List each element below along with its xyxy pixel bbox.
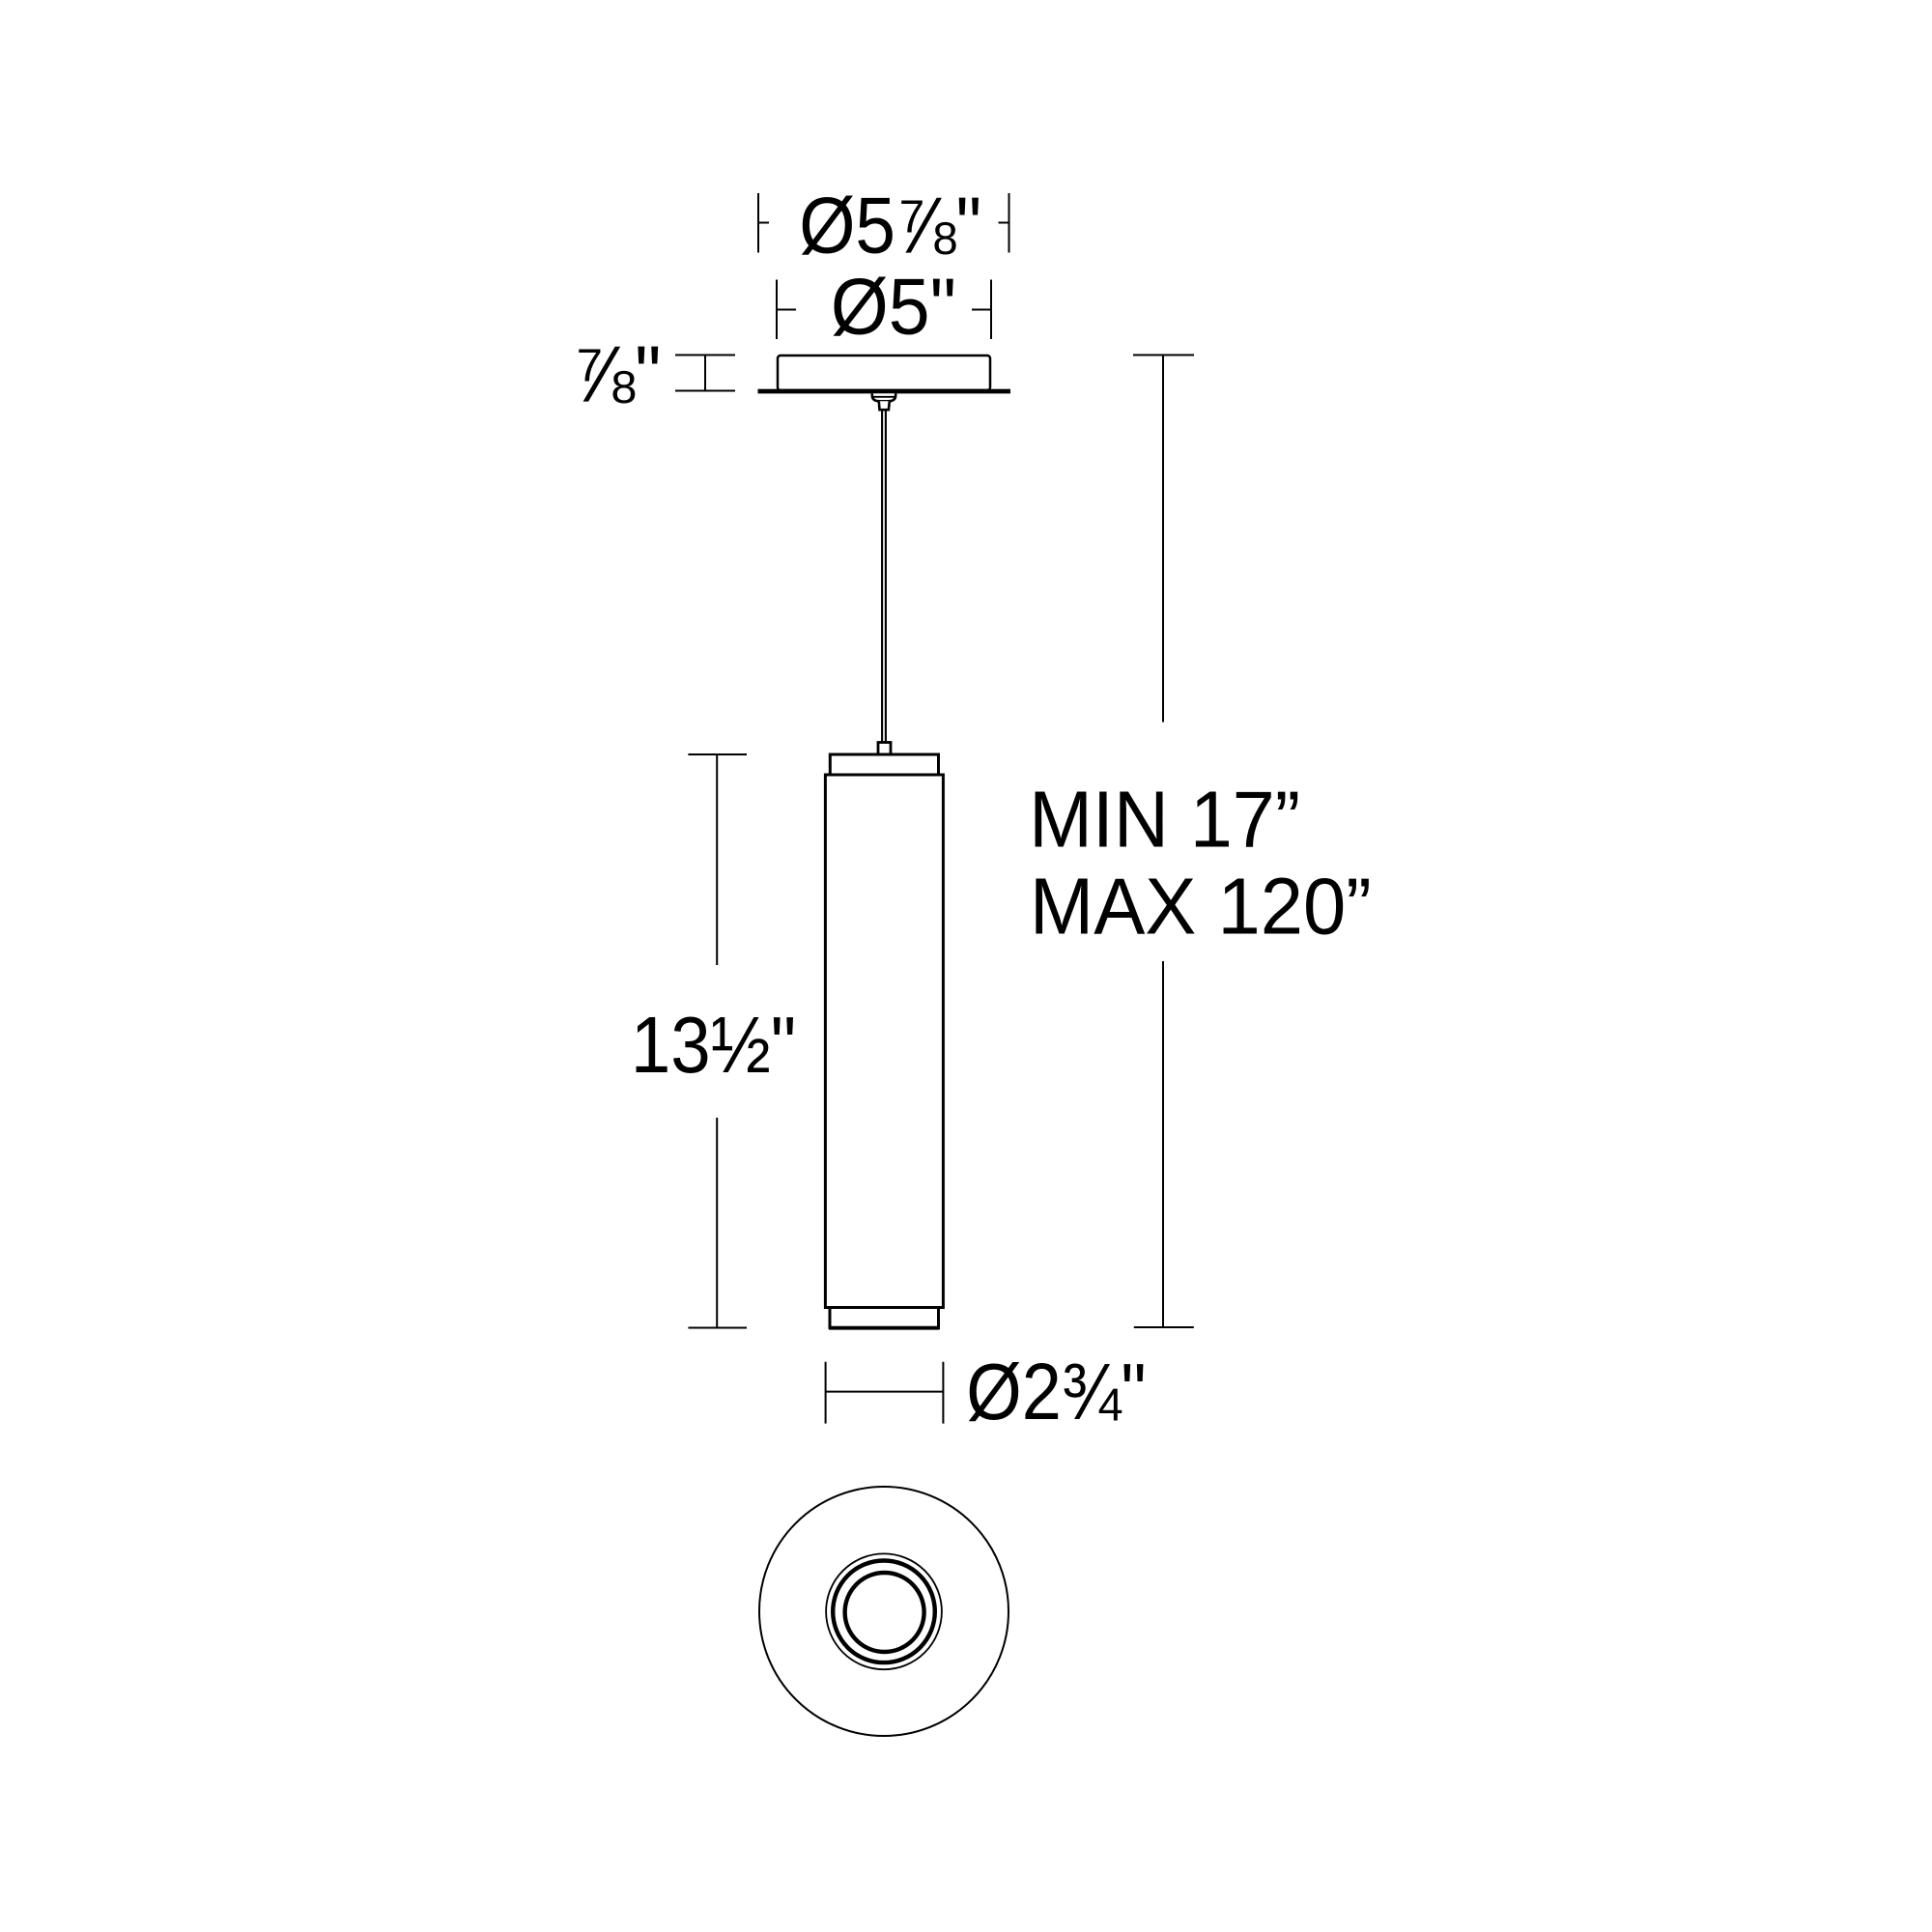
dim Ø5 ticks <box>777 280 991 340</box>
cable gripper dome <box>872 393 895 401</box>
canopy plate (side view) <box>778 355 990 390</box>
bottom view ring C (lens bezel) <box>845 1573 924 1652</box>
svg-text:Ø5⅞": Ø5⅞" <box>799 180 981 270</box>
cylinder body <box>825 775 943 1308</box>
dim MIN/MAX ticks <box>1133 355 1194 1328</box>
dim Ø2-3/4 ticks <box>826 1362 944 1424</box>
cylinder top cap <box>830 754 938 775</box>
canopy flange <box>758 389 1011 394</box>
bottom view ring B <box>833 1561 935 1663</box>
svg-text:MAX 120”: MAX 120” <box>1030 862 1372 952</box>
dim 13-1/2 ticks <box>688 754 747 1328</box>
bottom view outer circle <box>759 1487 1009 1736</box>
svg-text:Ø5": Ø5" <box>831 262 956 351</box>
square connector at cylinder top <box>878 743 891 755</box>
cylinder bottom cap <box>830 1308 939 1328</box>
bottom cap bottom edge thick <box>829 1326 940 1330</box>
dim 7/8 (canopy height) ticks <box>675 355 735 391</box>
suspension cable (twin lines) <box>881 410 883 742</box>
svg-text:Ø2¾": Ø2¾" <box>966 1347 1146 1436</box>
svg-text:MIN 17”: MIN 17” <box>1029 776 1300 865</box>
svg-text:⅞": ⅞" <box>573 329 662 418</box>
bottom view thin ring A <box>826 1553 942 1669</box>
cable connector stem at canopy <box>879 401 890 410</box>
dim Ø5-7/8 extension ticks and stubs <box>757 193 1010 253</box>
svg-text:13½": 13½" <box>631 1000 796 1090</box>
